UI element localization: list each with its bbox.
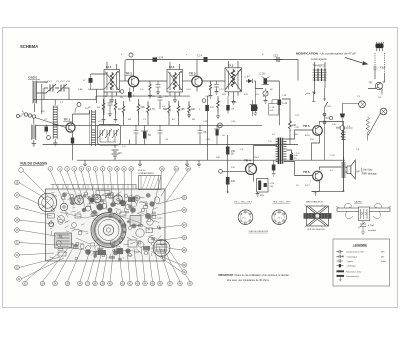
node dot [227, 191, 229, 193]
wire transistor down [368, 89, 382, 95]
svg-text:TR 6: TR 6 [303, 170, 310, 174]
wire TR4 emitter [253, 177, 255, 182]
wire bus y160 [77, 159, 345, 161]
interstage transformer T1 [276, 138, 287, 165]
svg-text:COMPARTIMENT: COMPARTIMENT [138, 172, 155, 175]
svg-text:10K: 10K [216, 157, 220, 159]
transistor TR1 [64, 114, 76, 139]
svg-text:TR: TR [369, 82, 372, 85]
callout leader lines right [151, 198, 182, 273]
wire jack to TR1 [35, 118, 66, 128]
node circled ref on top bus [129, 53, 133, 57]
svg-text:10K: 10K [181, 108, 186, 111]
ground cadre secondary [32, 140, 36, 146]
callout leader lines left [19, 183, 64, 280]
svg-text:C.16: C.16 [270, 107, 275, 109]
wire transformer secondary to TR6 [287, 162, 313, 176]
svg-text:Condensateur mmf: Condensateur mmf [346, 251, 364, 254]
resistor TR1 emitter [71, 138, 74, 144]
svg-text:HAUT-PARLEUR: HAUT-PARLEUR [306, 201, 323, 204]
battery B1 [112, 145, 122, 161]
numbered callout circles [15, 167, 193, 286]
node connector circle on bus [218, 123, 223, 128]
svg-text:C22: C22 [273, 54, 278, 58]
resistor R10 [282, 99, 297, 145]
arrow A marker [314, 192, 316, 196]
diode detector [245, 77, 256, 84]
IF transformer F.I.2 [167, 62, 183, 100]
capacitor 47pF mod [374, 67, 386, 75]
driver transformer [130, 216, 141, 226]
jack plug mark [17, 115, 23, 118]
svg-text:IMPORTANT : Dans le cas d'util: IMPORTANT : Dans le cas d'utilisation d'… [219, 274, 289, 277]
transistor TR4 [244, 159, 257, 177]
svg-text:e b c: e b c [278, 217, 282, 219]
capacitor cluster after IF2 [158, 95, 163, 109]
svg-text:10K: 10K [141, 106, 146, 109]
small parts left [48, 214, 65, 227]
chassis fine hatch [50, 192, 166, 258]
svg-text:47K: 47K [210, 107, 214, 109]
speaker rear view crossed box [304, 205, 332, 228]
wire y144 bus drop points [104, 120, 130, 144]
resistor R13 [226, 177, 236, 185]
wire TR5/TR6 collectors to output transformer [330, 122, 344, 168]
resistor R5 [137, 99, 145, 125]
cadre secondary coil [32, 118, 36, 140]
wire TR3 to F.I.3 [202, 80, 225, 82]
svg-text:MODIFICATION - Un condensateur: MODIFICATION - Un condensateur de 47 pF [296, 52, 356, 56]
capacitor on bus [272, 160, 276, 176]
svg-text:T.D.: T.D. [296, 153, 300, 155]
oscillator coupling coil [53, 100, 57, 139]
wire top supply bus [127, 60, 299, 81]
svg-text:CTN: CTN [270, 183, 275, 185]
svg-text:VOL: VOL [255, 94, 260, 96]
wire cadre bottom to jack [35, 84, 42, 114]
svg-text:TR.4: TR.4 [254, 157, 260, 159]
svg-text:être avec une impédance de 30: être avec une impédance de 30 ohms. [227, 279, 270, 282]
legend row 5 resistance [337, 270, 362, 273]
resistor R9a to ground [209, 81, 213, 98]
extra schematic labels [41, 54, 382, 187]
IF transformer F.I.1 [104, 62, 120, 100]
wire converter to IF1 [88, 74, 107, 115]
svg-text:R.17: R.17 [305, 185, 310, 187]
tuning gang circle [38, 193, 56, 211]
wire TR3 emitter chain down [207, 96, 209, 160]
legend row 1 capacitor pF [337, 250, 386, 254]
cadre antenna coil [33, 81, 37, 104]
electrolytic below TR2 [128, 88, 135, 102]
wire bus left drop [124, 61, 126, 81]
svg-text:ajustable: ajustable [368, 229, 377, 232]
wire det to vertical [267, 81, 279, 125]
capacitor on bus left [153, 57, 164, 61]
potentiometer P1 wiper node [336, 126, 353, 131]
svg-text:HiFi Montage: HiFi Montage [363, 173, 377, 176]
capacitor C on top bus [197, 56, 208, 63]
variable capacitor CV2 [57, 84, 69, 100]
svg-text:pFc: pFc [381, 256, 384, 258]
speaker circle [91, 213, 126, 248]
wire TR4 collector up to transformer [254, 146, 278, 162]
svg-text:a été ajouté: a été ajouté [311, 57, 327, 61]
knob volume [342, 101, 365, 114]
capacitor C19 [278, 100, 288, 106]
svg-text:" céramique: " céramique [346, 255, 358, 258]
svg-text:Cadre: Cadre [28, 76, 37, 80]
wire secondary centre [287, 150, 292, 160]
schematic value labels [44, 76, 360, 197]
wire transformer secondary to TR5 [287, 130, 313, 139]
resistor R5a to ground [148, 81, 152, 98]
resistor P1 element [341, 131, 343, 140]
svg-text:6-25pF: 6-25pF [368, 225, 375, 227]
wire AGC line left [33, 96, 96, 100]
electrolytic TR1 base [45, 125, 49, 135]
wire TR2 to IF2 [139, 80, 167, 82]
wire bottom rail [312, 190, 344, 192]
IF can 1 [74, 195, 83, 204]
svg-text:1K: 1K [118, 108, 121, 111]
transistor TR2 [126, 60, 139, 92]
battery compartment box [139, 176, 162, 190]
svg-text:68K: 68K [163, 108, 168, 111]
electrolytic C12 [199, 105, 209, 111]
svg-text:47K: 47K [244, 94, 248, 96]
svg-text:C.19: C.19 [282, 102, 288, 105]
svg-text:Potentiomètre: Potentiomètre [346, 275, 360, 278]
node circled ref mid2 [202, 99, 206, 103]
svg-text:Résistance 1/2w: Résistance 1/2w [346, 270, 362, 273]
svg-text:C.23: C.23 [330, 155, 335, 157]
knob tone [368, 108, 387, 135]
wire TR1 emitter down [72, 139, 74, 161]
potentiometer zigzag right [366, 117, 370, 132]
svg-text:6.8K: 6.8K [78, 89, 83, 91]
wire vertical feed line [227, 135, 229, 192]
trimmer capacitor 3 [112, 129, 119, 138]
ground stub x205 [197, 160, 201, 167]
node circled junction [219, 169, 223, 173]
transistor socket view 2 [272, 210, 287, 225]
svg-text:10K: 10K [231, 180, 236, 183]
callout leader lines bottom [25, 244, 190, 282]
node AGC takeoff [75, 103, 81, 113]
transistor spots row [85, 195, 139, 211]
transistor TR5 [303, 122, 330, 139]
IF can 3 [113, 195, 122, 204]
legend row 3 capacitor papier [337, 259, 387, 263]
wire mod to transistor [375, 73, 385, 82]
output transformer T2 [342, 130, 346, 192]
small caps between buses [134, 125, 139, 144]
svg-text:CV.1: CV.1 [47, 81, 52, 83]
callout circle top-left extra [19, 168, 24, 173]
component box C18b [269, 100, 280, 115]
svg-text:C.10: C.10 [186, 89, 191, 91]
wire collector line y96 [96, 95, 190, 97]
svg-text:C.20: C.20 [294, 127, 299, 129]
ground IF2 centre pin [173, 100, 177, 103]
dashed modification wiring [375, 53, 385, 73]
ground stubs below y160 bus [83, 160, 87, 167]
osc coil can [60, 203, 68, 211]
chassis top flange [51, 185, 137, 190]
svg-text:" papier: " papier [346, 260, 353, 263]
trimmer capacitor 1 [98, 129, 105, 138]
svg-text:C.14: C.14 [197, 56, 203, 58]
chassis interior scribble texture [49, 192, 164, 260]
legend row 4 capacitor chimique [337, 264, 357, 268]
wire IF1 to TR2 [120, 80, 129, 82]
potentiometer volume [263, 89, 268, 104]
cadre ferrite rod top view [336, 204, 391, 235]
resistor R8 [177, 101, 185, 125]
potentiometer P1 body [340, 114, 345, 126]
svg-text:TR 4: TR 4 [244, 159, 251, 163]
transistor TR6 [303, 167, 330, 184]
wire osc coil top to TR1 [73, 110, 90, 114]
oscillator coil L2 [90, 110, 96, 146]
resistor R12 [226, 147, 236, 156]
dark parts bottom centre [98, 250, 106, 255]
capacitor C8a [156, 81, 161, 95]
svg-text:TR 5: TR 5 [303, 124, 310, 128]
resistor R4 [118, 101, 125, 125]
trimmer capacitor 2 [105, 129, 112, 138]
chassis dark component blobs [88, 196, 91, 199]
node jack circles [24, 113, 27, 116]
IF can 2 [93, 194, 101, 202]
svg-text:CV.2: CV.2 [60, 81, 65, 83]
svg-text:47pF: 47pF [380, 67, 386, 70]
node circled ref mid [120, 90, 124, 94]
node circled ref TR1 base [47, 136, 51, 140]
capacitor C15 [226, 96, 235, 114]
svg-text:C.22: C.22 [336, 127, 341, 129]
svg-text:TR 1: TR 1 [64, 118, 71, 122]
svg-text:LEGENDE: LEGENDE [354, 243, 368, 247]
wire bus y144 [43, 144, 299, 146]
svg-text:T.S.: T.S. [356, 149, 360, 151]
interior wire runs [60, 212, 152, 252]
wire cadre to tuning caps [37, 82, 49, 93]
IF transformer F.I.3 / osc box [225, 61, 242, 104]
transistor TR3 [189, 60, 202, 92]
electrolytic converter load [83, 74, 93, 89]
svg-text:VUE DE DESSUS: VUE DE DESSUS [307, 229, 325, 231]
capacitor under cadre [358, 221, 366, 230]
speaker HP [346, 160, 378, 179]
callout leader lines top [50, 171, 188, 222]
right detail circle [153, 240, 170, 257]
svg-text:F.I.3: F.I.3 [228, 64, 234, 68]
capacitor after detector [260, 73, 270, 85]
driver transformer TRF [305, 62, 327, 95]
ground osc coupling [53, 139, 57, 146]
svg-text:TR 2: TR 2 [126, 72, 133, 76]
wire AVC branch [255, 81, 263, 89]
svg-text:HP: HP [357, 172, 361, 174]
svg-text:" chimique: " chimique [346, 266, 356, 268]
trimmer block box [98, 125, 121, 146]
callout numbers [16, 168, 192, 286]
svg-text:R.12: R.12 [232, 102, 237, 104]
svg-text:47K: 47K [110, 89, 114, 91]
svg-text:P.U.: P.U. [41, 111, 45, 113]
ground IF1 centre pin [110, 100, 114, 103]
svg-text:PILE 9V: PILE 9V [138, 170, 146, 172]
legend row 2 capacitor ceramique [337, 255, 385, 259]
electrolytic AVC [254, 89, 258, 116]
capacitor C13 [214, 81, 219, 94]
electrolytic C20 [250, 100, 259, 116]
transistor socket view 1 [238, 210, 253, 225]
svg-text:R.16: R.16 [305, 135, 310, 137]
svg-text:CADRE: CADRE [354, 201, 362, 204]
resistor R11 [216, 96, 220, 119]
electrolytic C24 [290, 155, 298, 161]
resistor cluster below TR2 [102, 99, 106, 122]
resistor centre tap [290, 151, 298, 161]
svg-text:SCHEMA: SCHEMA [20, 44, 38, 49]
svg-text:T.S.: T.S. [347, 126, 351, 128]
svg-text:C.18: C.18 [260, 73, 266, 76]
electrolytic C5 [141, 125, 151, 144]
svg-text:TR 3: TR 3 [189, 72, 196, 76]
chassis plate [46, 189, 166, 261]
legend row 6 potentiometre [337, 275, 360, 281]
legend box [333, 239, 390, 286]
transistor package top view [376, 42, 384, 51]
wire bus y125 [36, 124, 262, 126]
resistor R6 [147, 101, 156, 125]
svg-text:VUE DU CHASSIS: VUE DU CHASSIS [20, 162, 47, 166]
wire right pot down [367, 133, 369, 141]
transformer block [55, 233, 72, 248]
wire IF2 to TR3 [183, 80, 193, 82]
wire emitters join [312, 138, 320, 191]
IF can cluster dark [97, 204, 104, 211]
switch S1 [312, 88, 333, 160]
svg-text:4.7K: 4.7K [150, 108, 155, 111]
driver stage: wire from volume to TR4 [223, 170, 246, 172]
misc small components scatter [58, 191, 153, 257]
svg-text:4.7K: 4.7K [159, 58, 164, 60]
svg-text:e b c: e b c [242, 217, 246, 219]
capacitor on top bus right [273, 54, 282, 63]
variable capacitor CV1 [44, 84, 59, 100]
svg-text:T.D.: T.D. [268, 141, 272, 143]
resistor R7 [163, 101, 170, 125]
bias network box [256, 179, 275, 197]
arrow modification [345, 58, 364, 64]
output stage parts right [128, 219, 154, 247]
svg-text:INT.: INT. [328, 106, 332, 108]
resistor R9 [187, 101, 195, 118]
svg-text:9V: 9V [119, 151, 122, 155]
svg-text:C.13: C.13 [219, 89, 224, 91]
svg-text:Voir Note: Voir Note [363, 169, 373, 172]
svg-text:22K: 22K [191, 108, 196, 111]
transistor AF input [369, 82, 383, 90]
